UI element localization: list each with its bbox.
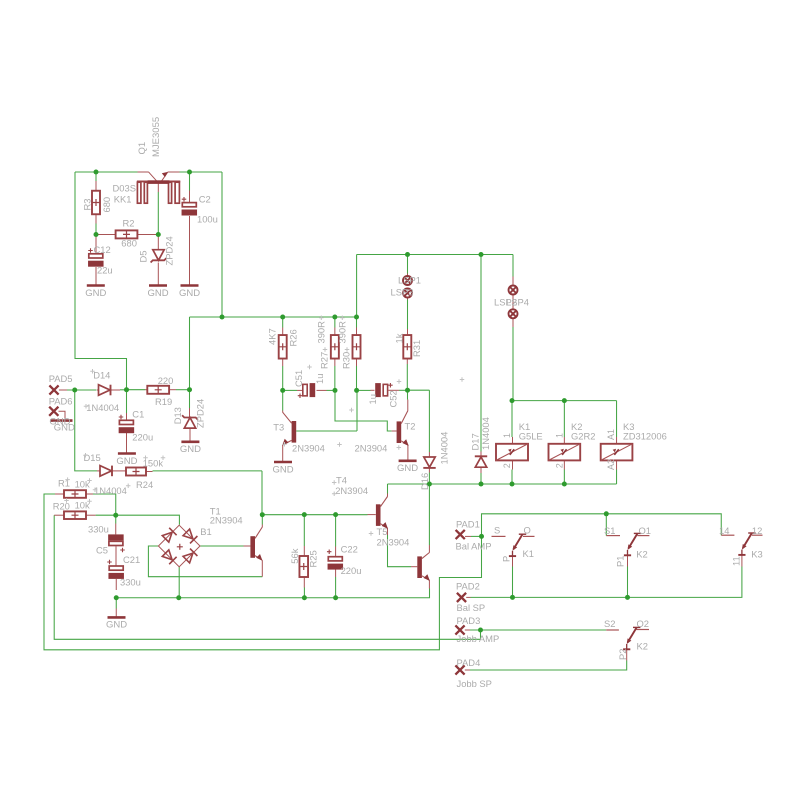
svg-text:R2: R2 [123, 217, 135, 228]
svg-text:C2: C2 [199, 194, 211, 205]
svg-text:56k: 56k [289, 548, 300, 563]
svg-text:Jobb SP: Jobb SP [457, 678, 492, 689]
svg-text:A1: A1 [606, 429, 616, 440]
svg-text:O: O [524, 525, 531, 536]
svg-text:R20: R20 [53, 500, 70, 511]
svg-text:ZPD24: ZPD24 [163, 236, 174, 265]
svg-text:Jobb AMP: Jobb AMP [457, 633, 500, 644]
svg-text:1u: 1u [367, 394, 378, 404]
svg-text:Q1: Q1 [137, 142, 148, 155]
svg-text:2N3904: 2N3904 [335, 485, 368, 496]
svg-text:LSP1: LSP1 [398, 275, 421, 286]
svg-text:2: 2 [502, 463, 512, 468]
svg-text:Bal AMP: Bal AMP [456, 541, 492, 552]
svg-text:D03S: D03S [113, 182, 136, 193]
svg-text:2N3904: 2N3904 [377, 537, 410, 548]
svg-text:D14: D14 [93, 370, 110, 381]
svg-text:K2: K2 [637, 641, 648, 652]
svg-text:R31: R31 [411, 340, 422, 357]
svg-text:K3: K3 [751, 549, 762, 560]
svg-text:C51: C51 [293, 370, 304, 387]
svg-text:T4: T4 [336, 474, 347, 485]
svg-text:1u: 1u [314, 374, 325, 384]
svg-text:2: 2 [554, 463, 564, 468]
svg-text:390R: 390R [316, 321, 327, 344]
svg-text:GND: GND [106, 620, 127, 631]
svg-text:1: 1 [554, 433, 564, 438]
svg-text:S2: S2 [604, 618, 615, 629]
svg-text:1: 1 [502, 433, 512, 438]
svg-text:220u: 220u [341, 565, 362, 576]
svg-text:2N3904: 2N3904 [210, 515, 243, 526]
svg-text:K1: K1 [523, 548, 534, 559]
svg-text:MJE3055: MJE3055 [151, 117, 162, 157]
svg-text:C5: C5 [96, 544, 108, 555]
svg-text:A2: A2 [606, 459, 616, 470]
svg-text:4K7: 4K7 [267, 328, 278, 345]
svg-text:R27: R27 [319, 352, 330, 369]
svg-text:GND: GND [147, 288, 168, 299]
svg-text:680: 680 [121, 238, 137, 249]
svg-text:GND: GND [54, 422, 75, 433]
svg-text:C12: C12 [94, 244, 111, 255]
svg-text:220: 220 [158, 375, 174, 386]
svg-text:S1: S1 [604, 525, 615, 536]
svg-text:100u: 100u [197, 214, 218, 225]
svg-text:S: S [494, 525, 500, 536]
svg-text:O2: O2 [637, 618, 650, 629]
svg-text:R19: R19 [155, 396, 172, 407]
svg-text:PAD2: PAD2 [456, 581, 480, 592]
svg-text:C1: C1 [132, 409, 144, 420]
svg-text:D15: D15 [84, 452, 101, 463]
svg-text:D16: D16 [419, 473, 430, 490]
svg-text:PAD1: PAD1 [456, 519, 480, 530]
svg-text:22u: 22u [97, 265, 113, 276]
svg-text:680: 680 [101, 197, 112, 213]
svg-text:2N3904: 2N3904 [292, 443, 325, 454]
svg-text:GND: GND [179, 288, 200, 299]
svg-text:GND: GND [180, 444, 201, 455]
svg-text:14: 14 [719, 525, 729, 536]
svg-text:P1: P1 [615, 556, 626, 567]
svg-text:D13: D13 [172, 407, 183, 424]
svg-text:LSP4: LSP4 [506, 296, 529, 307]
svg-text:ZD312006: ZD312006 [623, 430, 667, 441]
svg-text:1N4004: 1N4004 [86, 402, 119, 413]
svg-text:PAD4: PAD4 [457, 657, 481, 668]
svg-text:G2R2: G2R2 [571, 430, 596, 441]
svg-text:B1: B1 [200, 526, 211, 537]
svg-text:PAD3: PAD3 [457, 615, 481, 626]
svg-text:GND: GND [85, 288, 106, 299]
svg-text:330u: 330u [120, 576, 141, 587]
svg-text:P: P [501, 556, 512, 562]
svg-text:C21: C21 [123, 554, 140, 565]
svg-text:R30: R30 [341, 352, 352, 369]
svg-text:R25: R25 [308, 550, 319, 567]
svg-text:1N4004: 1N4004 [439, 432, 450, 465]
svg-text:LSP3: LSP3 [391, 286, 414, 297]
svg-text:330u: 330u [88, 523, 109, 534]
svg-text:1N4004: 1N4004 [94, 485, 127, 496]
svg-text:GND: GND [397, 463, 418, 474]
svg-text:C22: C22 [341, 544, 358, 555]
svg-text:K2: K2 [636, 549, 647, 560]
svg-text:ZPD24: ZPD24 [194, 399, 205, 428]
svg-text:11: 11 [730, 556, 741, 566]
svg-text:GND: GND [272, 464, 293, 475]
svg-text:PAD6: PAD6 [49, 396, 73, 407]
svg-text:1k: 1k [394, 333, 405, 343]
svg-text:O1: O1 [639, 525, 652, 536]
svg-text:GND: GND [116, 456, 137, 467]
svg-text:R26: R26 [288, 329, 299, 346]
svg-text:1N4004: 1N4004 [480, 417, 491, 450]
svg-text:Bal SP: Bal SP [457, 602, 486, 613]
svg-text:R3: R3 [81, 199, 92, 211]
svg-text:P2: P2 [617, 649, 628, 660]
svg-text:T2: T2 [405, 421, 416, 432]
svg-text:T5: T5 [377, 526, 388, 537]
svg-text:R24: R24 [136, 479, 153, 490]
svg-text:C52: C52 [387, 390, 398, 407]
svg-text:12: 12 [752, 525, 762, 536]
svg-text:G5LE: G5LE [519, 430, 543, 441]
svg-text:390R: 390R [337, 321, 348, 344]
svg-text:PAD5: PAD5 [49, 373, 73, 384]
svg-text:D5: D5 [137, 251, 148, 263]
svg-text:2N3904: 2N3904 [355, 443, 388, 454]
svg-text:T3: T3 [273, 421, 284, 432]
svg-text:220u: 220u [132, 432, 153, 443]
svg-text:KK1: KK1 [114, 194, 132, 205]
